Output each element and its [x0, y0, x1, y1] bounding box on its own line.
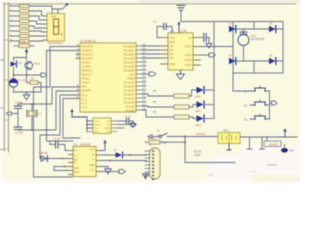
svg-text:V-: V-: [92, 159, 94, 162]
svg-text:1N4148: 1N4148: [39, 152, 48, 155]
svg-text:IN1: IN1: [170, 45, 175, 48]
svg-text:SCLK: SCLK: [95, 125, 101, 127]
driver IC U3: [161, 29, 201, 70]
svg-text:P1.1: P1.1: [82, 98, 88, 102]
svg-text:P0.0/AD0: P0.0/AD0: [123, 45, 135, 49]
button collector wire: [269, 91, 271, 119]
svg-text:C3 30p: C3 30p: [15, 132, 23, 135]
microcontroller U1: [76, 39, 146, 112]
svg-text:T1IN: T1IN: [74, 167, 79, 170]
svg-text:RST: RST: [95, 132, 100, 134]
svg-text:VCC: VCC: [170, 37, 175, 40]
capacitor C2 at driver top-left: [153, 21, 172, 38]
wire R2 elbow: [29, 11, 46, 16]
crystal rails: [18, 104, 56, 130]
timer IC U4: [87, 118, 117, 134]
wire R5: [29, 26, 46, 28]
switch S4 box: [264, 137, 281, 147]
capacitor C3: [14, 127, 22, 129]
resistor R7: [10, 35, 20, 37]
wire XTAL2: [56, 91, 80, 130]
svg-text:OUT4: OUT4: [185, 64, 192, 67]
svg-text:T1O: T1O: [90, 169, 95, 172]
crystal Y1: [27, 75, 31, 83]
wire R8: [29, 40, 46, 41]
switch K1: [148, 130, 218, 138]
motor bridge frame: [233, 22, 283, 74]
U4 left rail with VCC: [70, 109, 93, 132]
port arrow on driver pin: [201, 54, 210, 56]
svg-text:JACK: JACK: [194, 154, 201, 157]
wire driver to bridge: [201, 46, 234, 48]
svg-text:P0.1/AD1: P0.1/AD1: [123, 49, 135, 53]
svg-text:IN2: IN2: [170, 49, 175, 52]
svg-text:T0/P3.4: T0/P3.4: [82, 61, 92, 65]
svg-text:IN4: IN4: [170, 57, 175, 60]
capacitor C3 with ground right of driver: [201, 34, 213, 49]
svg-text:C4 104: C4 104: [124, 116, 132, 118]
MCU right pin labels: [123, 45, 135, 113]
svg-text:XTAL1: XTAL1: [82, 81, 90, 85]
left vertical: [14, 114, 19, 119]
sheet background: [0, 0, 300, 183]
svg-text:9013: 9013: [34, 62, 41, 66]
svg-text:I/O: I/O: [95, 128, 98, 130]
svg-text:TXD/P3.1: TXD/P3.1: [82, 49, 94, 53]
MCU left pin numbers: [76, 44, 79, 99]
battery BT1: [218, 128, 240, 143]
svg-text:C1-: C1-: [74, 155, 78, 158]
DB9 pin stubs: [145, 151, 150, 176]
svg-text:VCC: VCC: [89, 149, 94, 152]
svg-text:C2-: C2-: [74, 162, 78, 165]
svg-text:ENA: ENA: [170, 41, 175, 44]
top edge streak: [140, 0, 300, 2]
pale corner strip: [252, 175, 300, 184]
VCC arrow top (display supply): [52, 3, 68, 13]
resistor R3: [10, 15, 20, 17]
display left pins: [46, 16, 48, 40]
svg-text:RST: RST: [82, 85, 88, 89]
svg-text:LED2: LED2: [195, 110, 202, 113]
svg-text:P2.2/A10: P2.2/A10: [124, 101, 135, 105]
svg-text:ON/OFF: ON/OFF: [269, 144, 279, 147]
svg-text:C5 104: C5 104: [53, 138, 61, 141]
svg-text:P2.7/A15: P2.7/A15: [124, 81, 135, 85]
svg-text:RXD/P3.0: RXD/P3.0: [82, 45, 94, 49]
port arrow on U2 pin: [100, 171, 119, 173]
button S3: [244, 114, 270, 121]
svg-text:DB9: DB9: [162, 142, 167, 145]
svg-text:TW: TW: [208, 173, 213, 177]
diode D2 top-left: [229, 24, 236, 33]
resistor R1: [10, 5, 20, 7]
svg-text:PSEN: PSEN: [127, 77, 134, 81]
svg-text:RD/P3.7: RD/P3.7: [82, 73, 92, 77]
svg-text:DC MOTOR: DC MOTOR: [251, 38, 264, 41]
wire to rail: [14, 67, 27, 75]
wire R7: [29, 35, 46, 37]
ground below DB9: [145, 174, 147, 180]
svg-text:VCC: VCC: [95, 121, 100, 123]
wire R4: [29, 21, 46, 24]
white margin bottom-right: [213, 156, 300, 183]
svg-text:EA/VPP: EA/VPP: [82, 89, 92, 93]
ground: [26, 92, 28, 95]
svg-text:VS: VS: [188, 37, 192, 40]
crystal Y1: [29, 111, 36, 116]
svg-text:INT1/P3.3: INT1/P3.3: [82, 57, 94, 61]
svg-text:P1.2: P1.2: [82, 102, 88, 106]
svg-text:P2.1/A9: P2.1/A9: [125, 105, 135, 109]
ground on U2 pin: [100, 167, 111, 174]
rail with port arrow: [14, 74, 42, 76]
figure 8 segments: [54, 19, 59, 27]
svg-text:OUT1: OUT1: [185, 46, 192, 49]
battery bottom stub: [227, 144, 231, 151]
cap stub 1: [247, 137, 252, 149]
wire R6: [29, 31, 46, 32]
resistor R6: [10, 30, 20, 32]
svg-text:OUT2: OUT2: [185, 54, 192, 57]
wire outer loop: [34, 47, 81, 178]
port arrow on MCU pin: [142, 73, 150, 75]
svg-text:P2.5/A13: P2.5/A13: [124, 89, 135, 93]
svg-text:XTAL2: XTAL2: [82, 77, 90, 81]
7-segment display DS1: [46, 12, 65, 46]
polarized capacitor C6: [281, 144, 294, 153]
svg-text:DPY: DPY: [52, 15, 57, 18]
VCC arrow right: [284, 131, 286, 137]
svg-text:IN3: IN3: [170, 53, 175, 56]
svg-text:INT0/P3.2: INT0/P3.2: [82, 53, 94, 57]
resistor R5: [10, 25, 20, 27]
MCU left pin labels: [82, 45, 94, 110]
faint marks in white margin: [268, 164, 276, 166]
svg-text:P2.0/A8: P2.0/A8: [125, 109, 135, 113]
MCU left pin stubs: [76, 47, 80, 99]
capacitor C5 in loop: [50, 138, 69, 151]
DB9 connector J1: [145, 142, 167, 180]
LED row 2: [153, 101, 214, 113]
resistor R8: [10, 40, 20, 42]
margin zone marks: [1, 60, 4, 150]
top power rail: [181, 21, 283, 23]
button S1: [244, 86, 270, 93]
capacitor C4 right of U4: [117, 116, 136, 128]
svg-text:C1 10u: C1 10u: [19, 79, 28, 82]
svg-text:LED1: LED1: [195, 96, 202, 99]
svg-text:P2.4/A12: P2.4/A12: [124, 93, 135, 97]
svg-text:P2.6/A14: P2.6/A14: [124, 85, 135, 89]
diode D3 top-right: [269, 24, 276, 33]
wire R1 to display top pin: [29, 6, 52, 14]
diode D6 in loop: [39, 152, 69, 161]
motor M1: [238, 32, 264, 46]
svg-text:WR/P3.6: WR/P3.6: [82, 69, 93, 73]
svg-text:OUT3: OUT3: [185, 59, 192, 62]
svg-text:C1+: C1+: [74, 149, 79, 152]
wires MCU to LED rows: [142, 94, 154, 117]
DB9 pin pads: [152, 150, 154, 152]
svg-text:T1/P3.5: T1/P3.5: [82, 65, 92, 69]
svg-text:P1.3: P1.3: [82, 106, 88, 110]
svg-text:ALE: ALE: [130, 73, 135, 77]
wire with junction to U2: [54, 166, 69, 168]
border tick marks: [4, 40, 9, 149]
serial IC U2: [69, 143, 101, 177]
svg-text:P0.3/AD3: P0.3/AD3: [123, 57, 135, 61]
crystal oscillator block: [6, 102, 56, 135]
white strip bottom: [0, 181, 300, 183]
long wire U2 to DB9: [100, 160, 147, 162]
port arrow down: [26, 49, 28, 54]
white strip left edge: [0, 0, 3, 183]
display top pins: [52, 12, 58, 14]
bus wires left side: [34, 47, 81, 178]
svg-text:LED3: LED3: [195, 124, 202, 127]
sheet border left lines: [4, 3, 8, 152]
svg-text:25V: 25V: [290, 150, 295, 153]
bottom rail: [14, 91, 42, 93]
svg-text:P0.2/AD2: P0.2/AD2: [123, 53, 135, 57]
port arrow on button rail: [270, 102, 272, 104]
wire bus4: [63, 99, 80, 139]
svg-text:ON/OFF: ON/OFF: [196, 133, 206, 136]
cap stub 2: [260, 137, 265, 149]
wire bus3: [40, 95, 80, 159]
svg-text:BT1: BT1: [224, 128, 229, 132]
resistor R9 above DB9: [145, 138, 185, 145]
diode D1: [11, 62, 17, 67]
svg-text:P1.0: P1.0: [82, 94, 88, 98]
svg-text:GND: GND: [105, 128, 110, 130]
left driver block: [9, 40, 47, 100]
LED row 3: [153, 111, 214, 127]
stub U4 pin3: [117, 127, 124, 129]
net labels for resistor array: [10, 4, 13, 41]
MCU right pin numbers: [143, 43, 146, 110]
button S2: [244, 100, 270, 107]
junction and down wire: [184, 136, 186, 138]
G_RESNET: resistor array top-left: [10, 4, 52, 42]
svg-text:P0.5/AD5: P0.5/AD5: [123, 65, 135, 69]
resistor R2: [10, 10, 20, 12]
LED row 1: [153, 87, 214, 99]
bridge lower wires: [233, 73, 252, 91]
driver ground: [180, 70, 182, 74]
wire XTAL1: [52, 87, 80, 104]
port arrow right of U4: [117, 124, 131, 126]
VCC arrow on driver top pin: [178, 25, 180, 33]
svg-text:P0.4/AD4: P0.4/AD4: [123, 61, 135, 65]
svg-text:P0.6/AD6: P0.6/AD6: [123, 69, 135, 73]
svg-text:GND: GND: [170, 63, 176, 66]
svg-text:P2.3/A11: P2.3/A11: [124, 97, 135, 101]
resistor R4: [10, 20, 20, 22]
wire R3: [29, 16, 46, 20]
MCU right pin stubs: [136, 46, 146, 110]
svg-text:SM420561K: SM420561K: [48, 41, 64, 45]
diode D5 bottom-right: [269, 56, 276, 65]
main power wire: [240, 136, 297, 138]
VCC arrow on U2 pin: [100, 140, 107, 151]
sheet border top line: [4, 3, 296, 5]
electrolytic capacitor C1: [13, 75, 15, 78]
diode D4 bottom-left: [229, 56, 236, 65]
svg-text:GND: GND: [89, 164, 95, 167]
wire wrap: [47, 51, 81, 142]
port arrow XTAL: [12, 113, 14, 115]
LED collector wire: [213, 22, 215, 119]
transistor Q1: [25, 62, 33, 70]
diode D7 on U2 pin: [100, 149, 147, 158]
wires MCU to driver U3: [142, 46, 161, 58]
svg-text:R1IN: R1IN: [74, 171, 80, 174]
wire T-split: [14, 54, 27, 61]
svg-text:L298: L298: [180, 29, 187, 33]
white strip top edge: [0, 0, 300, 2]
power bar symbol (antenna): [177, 5, 185, 21]
